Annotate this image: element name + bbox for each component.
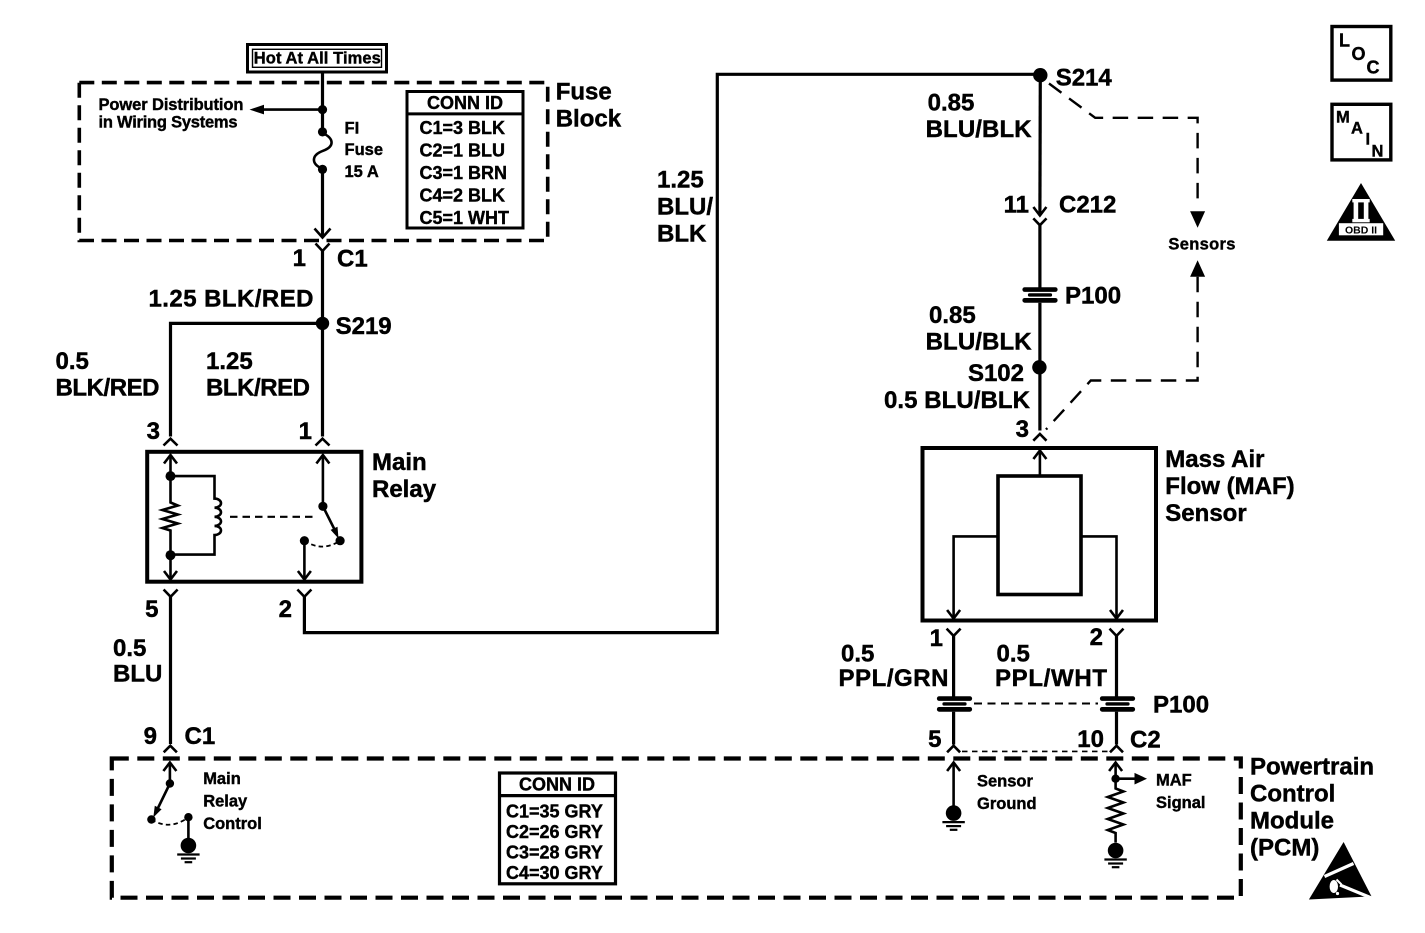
pass-through grommet P100 (left) — [937, 696, 972, 712]
svg-text:(PCM): (PCM) — [1250, 835, 1319, 862]
wire S214 down to C212 with arrow — [1038, 75, 1042, 215]
arrow up to Sensors — [1190, 260, 1205, 277]
svg-text:15 A: 15 A — [345, 163, 379, 181]
svg-text:0.85: 0.85 — [929, 302, 976, 329]
MAF pin 2 chevron — [1110, 629, 1124, 636]
connector C1 pin 1 (fuse block) — [316, 244, 330, 252]
svg-text:C1=3 BLK: C1=3 BLK — [420, 118, 506, 138]
svg-text:2: 2 — [279, 596, 292, 623]
svg-text:1: 1 — [930, 625, 943, 652]
MAF pin 3 chevron — [1033, 434, 1046, 441]
Fuse Block dashed box — [79, 83, 547, 241]
svg-text:11: 11 — [1004, 192, 1029, 219]
dashed switch travel arc — [151, 817, 188, 825]
svg-text:I: I — [1366, 130, 1371, 148]
svg-text:10: 10 — [1077, 726, 1104, 753]
svg-text:C3=1 BRN: C3=1 BRN — [420, 163, 508, 183]
svg-text:3: 3 — [1016, 416, 1029, 443]
wire MAF pin1 to P100 — [952, 636, 955, 697]
relay internal wire pin3 arrow up — [169, 455, 172, 477]
CONN ID table (PCM) — [500, 773, 616, 884]
MAF sensing element inner box — [998, 476, 1081, 595]
wire C1 to S219 to relay pin 1 — [321, 251, 324, 437]
relay internal wire pin1 arrow up — [322, 455, 325, 506]
svg-text:C212: C212 — [1059, 192, 1116, 219]
svg-text:Power Distribution: Power Distribution — [99, 96, 244, 114]
svg-text:C4=30 GRY: C4=30 GRY — [506, 863, 603, 883]
svg-text:C5=1 WHT: C5=1 WHT — [420, 208, 510, 228]
svg-text:MAF: MAF — [1156, 772, 1192, 790]
svg-text:Main: Main — [372, 449, 427, 476]
svg-text:1.25: 1.25 — [206, 348, 253, 375]
relay internal wire pin2 arrow down — [303, 541, 306, 580]
PCM pin 10 chevron — [1110, 746, 1123, 753]
svg-text:Control: Control — [1250, 781, 1335, 808]
relay pin 3 chevron — [164, 439, 178, 446]
svg-text:P100: P100 — [1153, 692, 1209, 719]
wire from Hot At All Times to fuse — [321, 72, 324, 133]
wire arrow to Power Distribution — [261, 108, 323, 111]
svg-text:0.5: 0.5 — [997, 641, 1030, 668]
svg-text:Signal: Signal — [1156, 794, 1206, 812]
svg-text:C: C — [1367, 58, 1380, 78]
splice S219 — [316, 317, 329, 330]
svg-text:Block: Block — [556, 105, 622, 132]
label Hot At All Times — [248, 45, 387, 73]
connector C212 chevron — [1033, 218, 1046, 225]
ground (MAF signal) — [1104, 843, 1126, 868]
svg-text:Sensors: Sensors — [1168, 236, 1235, 254]
svg-text:N: N — [1372, 142, 1384, 160]
CONN ID table (fuse block) — [407, 92, 523, 229]
svg-text:BLK: BLK — [657, 221, 707, 248]
fuse F1 (FI Fuse 15 A) — [314, 127, 332, 174]
svg-text:CONN ID: CONN ID — [427, 93, 503, 113]
dashed switch travel arc — [304, 541, 340, 547]
PCM internal pin10 arrow up (MAF signal) — [1114, 763, 1117, 779]
svg-text:5: 5 — [145, 596, 158, 623]
svg-text:Ground: Ground — [977, 795, 1037, 813]
dashed link between P100 grommets — [974, 703, 1098, 705]
svg-text:Fuse: Fuse — [556, 78, 612, 105]
svg-text:9: 9 — [144, 723, 157, 750]
relay internal node top — [166, 471, 176, 481]
svg-text:0.85: 0.85 — [928, 90, 975, 117]
svg-text:5: 5 — [928, 726, 941, 753]
wire fuse to connector C1 with arrow — [321, 169, 324, 237]
svg-text:C1: C1 — [185, 723, 216, 750]
svg-text:BLU/BLK: BLU/BLK — [926, 116, 1033, 143]
relay internal node bottom — [166, 550, 176, 560]
svg-text:P100: P100 — [1065, 283, 1121, 310]
pass-through grommet P100 (right) — [1100, 696, 1135, 712]
svg-text:C4=2 BLK: C4=2 BLK — [420, 185, 506, 205]
splice S102 — [1032, 360, 1046, 374]
wire MAF pin2 to P100 — [1115, 636, 1118, 697]
wire relay pin5 to PCM pin9 — [169, 597, 172, 744]
wire P100 to PCM pin5 — [952, 712, 955, 745]
svg-text:BLU/BLK: BLU/BLK — [926, 329, 1033, 356]
pass-through grommet P100 (upper) — [1022, 283, 1121, 310]
svg-text:S219: S219 — [336, 313, 392, 340]
relay switch contact left — [300, 536, 309, 545]
switch contact left node — [147, 815, 155, 823]
relay pin 5 chevron — [164, 590, 178, 597]
ESD sensitive device symbol — [1309, 842, 1374, 900]
svg-text:1: 1 — [299, 418, 312, 445]
relay internal wire pin5 arrow down — [169, 555, 172, 579]
svg-text:S102: S102 — [968, 360, 1024, 387]
svg-text:Module: Module — [1250, 808, 1334, 835]
main relay control switch arm with arrow — [158, 784, 170, 810]
svg-text:1.25: 1.25 — [657, 167, 704, 194]
svg-text:Flow (MAF): Flow (MAF) — [1165, 473, 1294, 500]
svg-text:C1: C1 — [337, 246, 368, 273]
wire P100 to S102 to MAF pin 3 — [1038, 303, 1041, 431]
relay coil L1 — [171, 476, 222, 554]
MAF signal node — [1111, 775, 1119, 783]
svg-text:C2: C2 — [1130, 727, 1161, 754]
MAF sensor box — [923, 448, 1157, 621]
PCM internal pin9 arrow up — [169, 763, 172, 784]
ground (main relay control) — [177, 838, 199, 863]
relay K1 Main Relay box — [147, 452, 361, 582]
svg-text:FI: FI — [345, 120, 360, 138]
svg-text:C2=26 GRY: C2=26 GRY — [506, 822, 603, 842]
svg-text:Mass Air: Mass Air — [1165, 446, 1264, 473]
svg-text:in Wiring Systems: in Wiring Systems — [99, 114, 238, 132]
svg-text:CONN ID: CONN ID — [519, 774, 595, 794]
MAF internal wire pin3 arrow up — [1039, 451, 1042, 477]
junction node (power distribution tap) — [318, 105, 327, 114]
wire S219 left branch — [171, 323, 323, 436]
dashed sensors link lower — [1046, 277, 1198, 430]
svg-text:PPL/GRN: PPL/GRN — [839, 665, 949, 692]
switch contact right node — [184, 813, 192, 821]
MAIN icon — [1332, 104, 1391, 160]
arrow down to Sensors — [1190, 211, 1205, 228]
svg-text:BLK/RED: BLK/RED — [56, 375, 160, 402]
svg-text:0.5: 0.5 — [56, 348, 89, 375]
PCM pin 9 chevron — [164, 746, 177, 753]
svg-text:O: O — [1352, 44, 1366, 64]
svg-text:L: L — [1339, 31, 1350, 51]
LOC icon — [1332, 27, 1391, 81]
svg-text:PPL/WHT: PPL/WHT — [995, 665, 1107, 692]
svg-text:OBD II: OBD II — [1345, 224, 1377, 236]
svg-text:1: 1 — [293, 245, 306, 272]
main relay control switch pivot node — [166, 779, 174, 787]
svg-text:0.5 BLU/BLK: 0.5 BLU/BLK — [884, 387, 1031, 414]
relay pin 2 chevron — [297, 590, 311, 597]
svg-text:3: 3 — [147, 418, 160, 445]
svg-text:Sensor: Sensor — [977, 773, 1034, 791]
relay switch pivot node — [318, 502, 327, 511]
relay switch arm with arrow — [323, 506, 335, 531]
svg-text:BLU/: BLU/ — [657, 194, 713, 221]
svg-text:0.5: 0.5 — [113, 635, 146, 662]
resistor (relay coil suppression) — [162, 476, 177, 555]
MAF internal wire to pin 2 arrow down — [1081, 536, 1117, 618]
svg-text:Sensor: Sensor — [1165, 500, 1246, 527]
svg-text:A: A — [1351, 120, 1363, 138]
svg-text:BLK/RED: BLK/RED — [206, 375, 310, 402]
ground (sensor ground) — [942, 805, 964, 830]
svg-text:Powertrain: Powertrain — [1250, 754, 1374, 781]
relay switch contact right — [336, 536, 345, 545]
wire C212 to P100 — [1038, 225, 1041, 288]
PCM dashed box — [112, 759, 1241, 898]
svg-text:M: M — [1336, 108, 1350, 126]
arrow to MAF Signal — [1116, 777, 1136, 780]
wire to ground — [187, 817, 190, 840]
wire relay pin2 to S214 — [304, 74, 1040, 632]
svg-text:0.5: 0.5 — [841, 641, 874, 668]
dashed sensors link upper — [1049, 84, 1198, 207]
wire P100 to PCM pin10 — [1115, 712, 1118, 745]
MAF internal wire to pin 1 arrow down — [954, 536, 998, 618]
svg-text:Relay: Relay — [203, 793, 248, 811]
svg-text:Main: Main — [203, 770, 241, 788]
dashed connector face line C2 — [962, 750, 1108, 752]
MAF pin 1 chevron — [947, 629, 961, 636]
splice S214 — [1033, 68, 1047, 82]
svg-text:1.25 BLK/RED: 1.25 BLK/RED — [149, 286, 314, 313]
svg-text:S214: S214 — [1056, 65, 1113, 92]
svg-text:2: 2 — [1090, 624, 1103, 651]
svg-text:Relay: Relay — [372, 476, 437, 503]
svg-text:Control: Control — [203, 815, 262, 833]
OBD II icon — [1327, 183, 1395, 241]
svg-text:C3=28 GRY: C3=28 GRY — [506, 843, 603, 863]
dashed actuation link coil to switch — [230, 516, 317, 518]
svg-text:BLU: BLU — [113, 661, 162, 688]
resistor (MAF signal pulldown) — [1108, 779, 1124, 843]
relay pin 1 chevron — [316, 439, 330, 446]
svg-text:Fuse: Fuse — [345, 141, 384, 159]
svg-text:Hot At All Times: Hot At All Times — [254, 50, 381, 68]
svg-text:C2=1 BLU: C2=1 BLU — [420, 141, 506, 161]
PCM pin 5 chevron — [947, 746, 960, 753]
svg-text:C1=35 GRY: C1=35 GRY — [506, 801, 603, 821]
PCM internal pin5 arrow up (sensor ground) — [952, 763, 955, 807]
